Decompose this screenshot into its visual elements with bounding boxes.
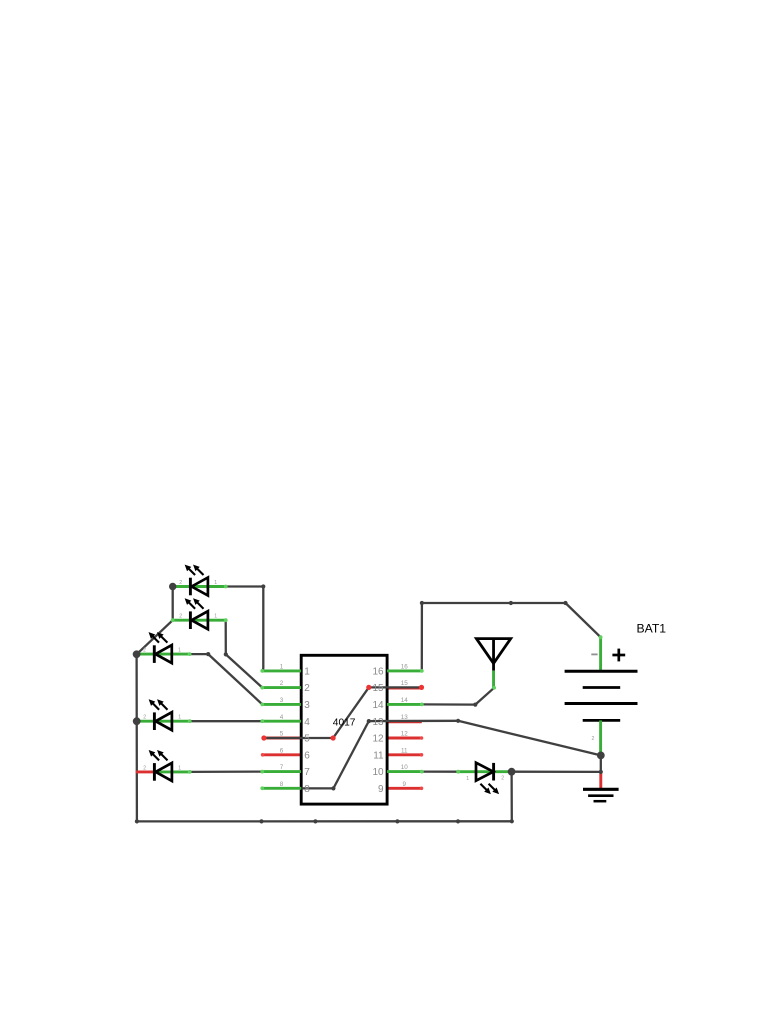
svg-text:9: 9 bbox=[403, 781, 407, 788]
svg-text:3: 3 bbox=[280, 697, 284, 704]
svg-text:1: 1 bbox=[280, 664, 284, 671]
IC U1 pin 8 stub bbox=[262, 787, 301, 790]
svg-text:2: 2 bbox=[143, 765, 146, 771]
IC U1 pin 13 stub (red, under wire) bbox=[387, 720, 422, 723]
svg-text:1: 1 bbox=[178, 715, 181, 721]
svg-text:3: 3 bbox=[304, 700, 310, 711]
unconnected endpoint dots (red) bbox=[261, 685, 424, 741]
wire IC pin 5 to IC pin 15 (over IC body) bbox=[264, 687, 422, 738]
IC U1 pin 16 stub bbox=[387, 669, 422, 672]
svg-text:14: 14 bbox=[401, 697, 409, 704]
red pin tip dots bbox=[261, 736, 424, 790]
wire IC pin 10 to LED6 anode bbox=[422, 770, 458, 772]
svg-text:10: 10 bbox=[401, 764, 409, 771]
wire LED2 anode to IC pin 2 bbox=[226, 620, 263, 687]
svg-text:16: 16 bbox=[372, 667, 384, 678]
svg-text:10: 10 bbox=[372, 767, 384, 778]
svg-text:14: 14 bbox=[372, 700, 384, 711]
IC U1 outer left pin labels bbox=[280, 664, 284, 788]
svg-text:15: 15 bbox=[401, 680, 409, 687]
battery BAT1 bbox=[565, 637, 638, 755]
IC U1 4017 body bbox=[301, 655, 387, 804]
LED LED2 bbox=[173, 599, 226, 629]
IC U1 pin 10 stub bbox=[387, 770, 422, 773]
wire IC pin 14 to antenna AE1 bbox=[422, 688, 494, 705]
svg-text:1: 1 bbox=[214, 580, 217, 586]
svg-text:13: 13 bbox=[372, 717, 384, 728]
ground symbol bbox=[583, 772, 619, 801]
svg-text:8: 8 bbox=[304, 784, 310, 795]
IC U1 pin 11 stub (red) bbox=[387, 753, 422, 756]
IC U1 outer right pin labels bbox=[401, 664, 409, 788]
svg-text:2: 2 bbox=[179, 614, 182, 620]
wire bend points bbox=[135, 584, 603, 823]
svg-text:9: 9 bbox=[378, 784, 384, 795]
wire LED5 anode to IC pin 7 bbox=[190, 770, 263, 773]
junction node: LED3 cathode / left rail bbox=[133, 650, 141, 658]
LED LED4 bbox=[137, 700, 190, 730]
wire battery minus junction to ground node bbox=[600, 755, 602, 772]
svg-text:1: 1 bbox=[178, 648, 181, 654]
svg-text:5: 5 bbox=[304, 734, 310, 745]
IC U1 right pin numbers bbox=[372, 667, 384, 795]
svg-text:1: 1 bbox=[304, 667, 310, 678]
svg-text:12: 12 bbox=[401, 731, 409, 738]
junction node: LED1 cathode bbox=[169, 583, 176, 590]
IC U1 pin 6 stub (red) bbox=[262, 753, 301, 756]
svg-text:4: 4 bbox=[304, 717, 310, 728]
wire bottom rail: LED6 junction to left rail up to LED3 junction bbox=[137, 654, 512, 821]
svg-text:4: 4 bbox=[280, 714, 284, 721]
connected endpoint dots (green) bbox=[171, 585, 603, 791]
junction node: LED6 cathode / bottom rail bbox=[508, 768, 516, 776]
svg-text:12: 12 bbox=[372, 734, 384, 745]
svg-text:1: 1 bbox=[466, 776, 469, 782]
wire IC pin 16 to battery plus bbox=[422, 603, 601, 671]
antenna AE1 bbox=[476, 639, 510, 688]
IC U1 pin 9 stub (red) bbox=[387, 787, 422, 790]
IC U1 pin 1 stub bbox=[262, 669, 301, 672]
LED LED5 bbox=[136, 751, 190, 781]
battery plus sign bbox=[612, 654, 625, 657]
IC U1 left pin numbers bbox=[304, 667, 310, 795]
wire LED3 anode to IC pin 3 bbox=[190, 654, 263, 704]
svg-text:2: 2 bbox=[304, 683, 310, 694]
IC U1 pin 14 stub bbox=[387, 703, 422, 706]
wire LED4 anode to IC pin 4 bbox=[190, 720, 263, 722]
svg-text:2: 2 bbox=[143, 715, 146, 721]
IC U1 pin 5 stub (red, under wire) bbox=[262, 737, 301, 740]
LED LED1 bbox=[173, 565, 226, 595]
svg-text:11: 11 bbox=[373, 750, 384, 761]
svg-text:2: 2 bbox=[501, 776, 504, 782]
svg-text:2: 2 bbox=[592, 736, 595, 742]
svg-text:8: 8 bbox=[280, 781, 284, 788]
junction node: LED4 cathode / left rail bbox=[133, 717, 141, 725]
battery minus sign bbox=[591, 653, 597, 655]
svg-text:11: 11 bbox=[401, 747, 408, 754]
IC U1 pin 7 stub bbox=[262, 770, 301, 773]
IC U1 pin 12 stub (red) bbox=[387, 737, 422, 740]
svg-text:2: 2 bbox=[143, 648, 146, 654]
svg-text:2: 2 bbox=[179, 580, 182, 586]
svg-text:1: 1 bbox=[178, 765, 181, 771]
svg-text:16: 16 bbox=[401, 664, 409, 671]
svg-text:4017: 4017 bbox=[333, 718, 356, 729]
IC U1 pin 15 stub (red, under wire) bbox=[387, 687, 422, 690]
svg-text:6: 6 bbox=[304, 750, 310, 761]
wire LED6 cathode to ground node bbox=[512, 771, 601, 774]
svg-text:7: 7 bbox=[304, 767, 310, 778]
junction node: battery minus bbox=[597, 752, 605, 760]
wire LED3 junction to LED2 cathode to LED1 cathode bbox=[137, 587, 173, 655]
svg-text:BAT1: BAT1 bbox=[637, 621, 667, 635]
svg-text:1: 1 bbox=[214, 614, 217, 620]
IC U1 pin 2 stub bbox=[262, 686, 301, 689]
LED LED3 bbox=[137, 633, 190, 663]
svg-text:15: 15 bbox=[372, 683, 384, 694]
IC U1 pin 4 stub bbox=[262, 720, 301, 723]
svg-text:5: 5 bbox=[280, 731, 284, 738]
wire LED1 anode to IC pin 1 bbox=[226, 587, 264, 671]
IC U1 pin 3 stub bbox=[262, 703, 301, 706]
wire IC pin 8 to IC pin 13 to battery minus junction bbox=[262, 721, 601, 789]
svg-text:7: 7 bbox=[280, 764, 284, 771]
LED LED6 bbox=[458, 763, 511, 794]
svg-text:6: 6 bbox=[280, 747, 284, 754]
svg-text:2: 2 bbox=[280, 680, 284, 687]
svg-text:13: 13 bbox=[401, 714, 409, 721]
